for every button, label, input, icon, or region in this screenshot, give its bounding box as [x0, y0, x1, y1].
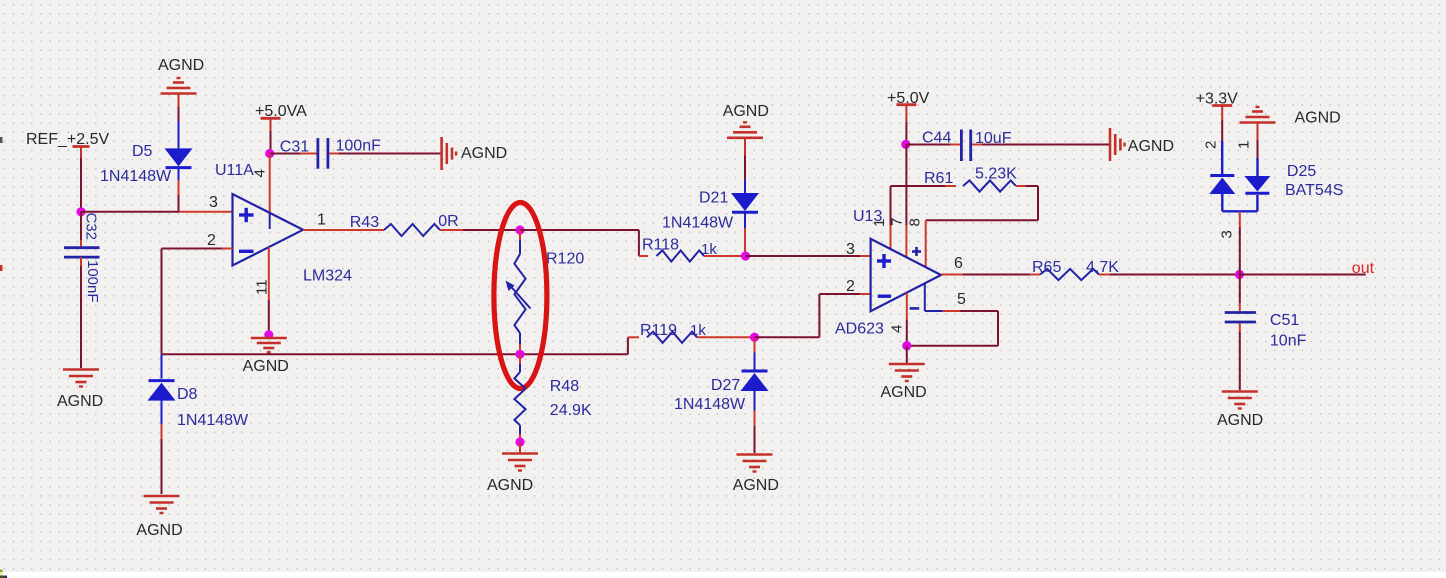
svg-text:1: 1 [1236, 141, 1253, 149]
svg-text:10nF: 10nF [1270, 332, 1307, 349]
svg-text:R61: R61 [924, 170, 953, 187]
svg-text:AGND: AGND [881, 384, 927, 401]
svg-text:R119: R119 [640, 322, 677, 339]
svg-text:AGND: AGND [461, 145, 507, 162]
node junction +5.0V / C44 / pin7 [901, 140, 910, 149]
resistor R118 1k [639, 255, 648, 257]
svg-text:AGND: AGND [1128, 138, 1174, 155]
resistor R119 1k [647, 332, 697, 343]
svg-text:3: 3 [846, 241, 855, 258]
svg-text:2: 2 [846, 278, 855, 295]
wire node to U13 pin 2 [755, 336, 820, 338]
svg-text:5: 5 [957, 291, 966, 308]
svg-text:AD623: AD623 [835, 321, 884, 338]
svg-text:AGND: AGND [57, 393, 103, 410]
svg-text:AGND: AGND [243, 358, 289, 375]
svg-text:out: out [1352, 260, 1375, 277]
wire R61 right to pin 8 [1037, 186, 1039, 220]
wire +5V to U13 pin 7 [905, 144, 907, 225]
wire R43 to node [440, 229, 463, 231]
svg-text:C32: C32 [83, 213, 100, 241]
wire D27 to ground [754, 426, 756, 453]
svg-text:4: 4 [889, 325, 906, 333]
svg-text:2: 2 [207, 232, 216, 249]
svg-text:8: 8 [907, 218, 924, 226]
capacitor C51 10nF [1239, 275, 1241, 304]
svg-text:2: 2 [1203, 141, 1220, 149]
node junction R119/D27/pin2 [750, 333, 759, 342]
diode D21 1N4148W [744, 180, 746, 193]
svg-text:D25: D25 [1287, 163, 1316, 180]
ground AGND below U13 [889, 363, 925, 366]
op-amp U11A LM324 [233, 194, 304, 266]
node junction +5.0VA / C31 / pin4 [265, 149, 274, 158]
node junction at C32/pin3 [76, 207, 85, 216]
potentiometer R120 [519, 230, 521, 240]
svg-text:100nF: 100nF [336, 138, 382, 155]
capacitor C31 100nF [270, 153, 300, 155]
node junction R118/D21/pin3 [741, 251, 750, 260]
diode D8 1N4148W [161, 354, 163, 378]
wire C31 to AGND [339, 153, 442, 155]
wire feedback net to R119 [627, 337, 629, 354]
ground AGND below R48 [502, 452, 538, 455]
svg-text:C51: C51 [1270, 312, 1299, 329]
svg-text:100nF: 100nF [84, 260, 101, 303]
svg-text:AGND: AGND [487, 477, 533, 494]
capacitor C44 10uF [906, 144, 950, 146]
highlight ellipse (red markup circle) [494, 203, 547, 389]
wire AGND to D5 [178, 107, 180, 121]
wire AGND to D21 [744, 156, 746, 180]
wire U11A pin1 output to R43 [303, 229, 384, 231]
node junction R43/R120 top [515, 225, 524, 234]
node junction pin11 ground [264, 330, 273, 339]
svg-text:D27: D27 [711, 377, 740, 394]
svg-text:1: 1 [871, 219, 888, 227]
svg-text:C31: C31 [280, 139, 309, 156]
ground AGND below D27 [737, 453, 773, 456]
svg-text:REF_+2.5V: REF_+2.5V [26, 131, 109, 148]
svg-text:4.7K: 4.7K [1086, 259, 1119, 276]
ground AGND below D8 [144, 495, 180, 498]
ground AGND right of C31 (sideways) [440, 137, 443, 170]
wire R65 to out node [1110, 274, 1240, 276]
edge artifacts [0, 137, 3, 143]
svg-text:7: 7 [889, 218, 906, 226]
wire D8 to ground [161, 439, 163, 494]
svg-text:3: 3 [1219, 230, 1236, 238]
wire D5 to pin3 net [178, 180, 180, 195]
op-amp U13 AD623 [871, 239, 941, 311]
wire C32 to ground [80, 266, 82, 368]
svg-text:BAT54S: BAT54S [1285, 182, 1343, 199]
svg-text:3: 3 [209, 194, 218, 211]
node junction R120 bottom [515, 350, 524, 359]
ground AGND below C51 [1222, 390, 1258, 393]
svg-text:6: 6 [954, 255, 963, 272]
wire pin4 V+ into U11A [269, 154, 271, 214]
svg-text:LM324: LM324 [303, 267, 352, 284]
svg-text:1N4148W: 1N4148W [662, 214, 734, 231]
svg-text:R120: R120 [546, 251, 584, 268]
svg-text:1N4148W: 1N4148W [674, 396, 746, 413]
svg-text:R118: R118 [642, 237, 679, 254]
wire U13 pin 6 output [941, 274, 963, 276]
wire REF to node [80, 158, 82, 212]
node junction pin4/pin5 ground [902, 341, 911, 350]
svg-text:AGND: AGND [136, 522, 182, 539]
svg-text:AGND: AGND [1295, 110, 1341, 127]
svg-text:4: 4 [252, 169, 269, 177]
R120 wiper arrow [510, 286, 531, 309]
diode D5 1N4148W [165, 148, 193, 166]
svg-text:AGND: AGND [723, 103, 769, 120]
svg-text:AGND: AGND [1217, 412, 1263, 429]
ground AGND at pin 11 [251, 337, 287, 340]
capacitor C32 [80, 212, 82, 240]
wire node to R118 corner [520, 229, 639, 231]
svg-text:R65: R65 [1032, 259, 1061, 276]
svg-text:D5: D5 [132, 143, 153, 160]
ground AGND below C32 [63, 368, 99, 371]
resistor R48 24.9K [519, 354, 521, 364]
resistor R61 5.23K feedback [891, 185, 946, 187]
svg-text:AGND: AGND [158, 57, 204, 74]
resistor R43 0R [384, 224, 440, 236]
wire node to out [1240, 274, 1366, 276]
wire U13 pin 4 to ground [906, 293, 908, 320]
wire node to U11A pin 3 [81, 211, 179, 213]
svg-text:D8: D8 [177, 386, 198, 403]
svg-text:1k: 1k [701, 241, 717, 258]
wire U11A pin 2 to feedback net [222, 248, 233, 250]
wire U13 pin 5 to pin 4 node [924, 284, 926, 312]
svg-text:1N4148W: 1N4148W [177, 412, 249, 429]
node junction R48 ground [515, 437, 524, 446]
svg-text:R43: R43 [350, 214, 379, 231]
svg-text:5.23K: 5.23K [975, 166, 1017, 183]
wire feedback net y=354 long horizontal [162, 353, 628, 355]
wire D25 pin 3 to out node [1239, 211, 1241, 227]
diode D27 1N4148W [754, 339, 756, 353]
svg-text:0R: 0R [438, 213, 458, 230]
wire node to U13 pin 3 [746, 255, 861, 257]
svg-text:1N4148W: 1N4148W [100, 168, 172, 185]
svg-text:D21: D21 [699, 190, 728, 207]
node junction out [1235, 270, 1244, 279]
ground AGND right of C44 (sideways) [1109, 128, 1112, 161]
wire C51 to ground [1239, 332, 1241, 390]
svg-text:1: 1 [317, 212, 326, 229]
svg-text:24.9K: 24.9K [550, 402, 592, 419]
svg-text:R48: R48 [550, 378, 579, 395]
svg-text:1k: 1k [690, 322, 706, 339]
svg-text:AGND: AGND [733, 477, 779, 494]
resistor R65 4.7K [1030, 274, 1040, 276]
svg-text:11: 11 [254, 279, 271, 295]
wire R61 left to pin 1 [890, 186, 892, 225]
wire C44 to AGND [982, 144, 1110, 146]
wire U11A pin 11 to ground [268, 247, 270, 300]
svg-text:C44: C44 [922, 130, 951, 147]
svg-text:U11A: U11A [215, 162, 254, 179]
diode D25 BAT54S [1210, 174, 1234, 177]
